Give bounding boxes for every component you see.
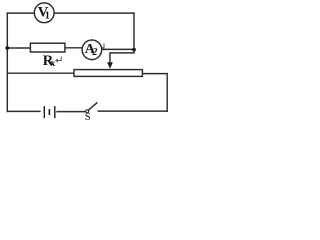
svg-text:x: x (51, 59, 56, 69)
svg-text:S: S (85, 112, 91, 123)
svg-text:1: 1 (45, 11, 50, 22)
svg-text:2: 2 (91, 47, 97, 58)
